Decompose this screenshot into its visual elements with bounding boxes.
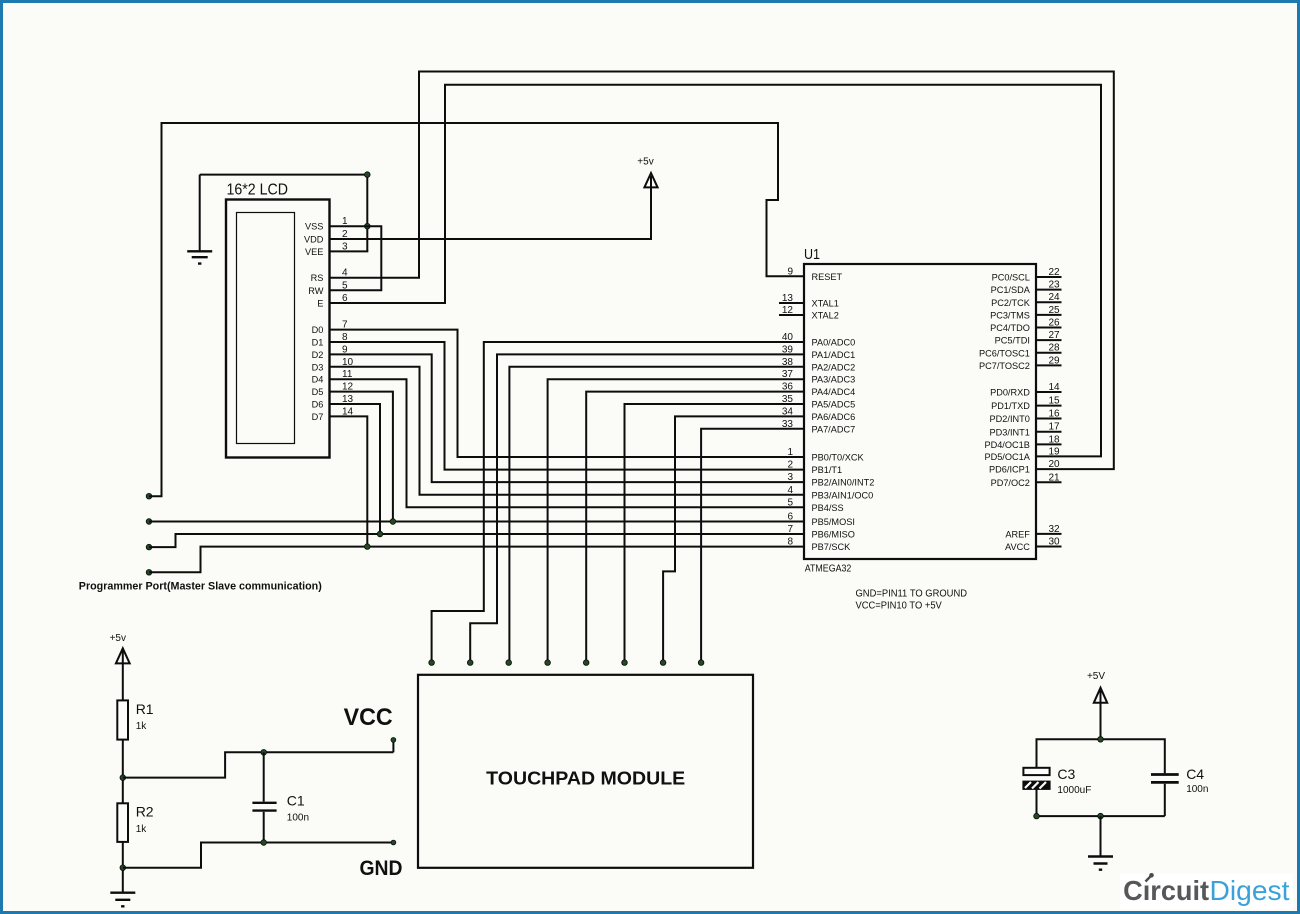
svg-text:4: 4: [787, 485, 793, 496]
node R2/ground junction: [120, 865, 126, 871]
svg-text:+5v: +5v: [110, 633, 126, 644]
U1 right pin stubs AREF AVCC: [1036, 534, 1062, 547]
svg-text:VSS: VSS: [305, 222, 323, 232]
svg-text:D1: D1: [312, 338, 324, 348]
svg-text:Cırcuit: Cırcuit: [1123, 875, 1209, 906]
U1 right pin stubs PC0-PC7: [1036, 277, 1062, 365]
svg-text:PA0/ADC0: PA0/ADC0: [812, 338, 856, 348]
wire R1 to R2: [122, 740, 124, 804]
IC U1 ATMEGA32 box: [804, 246, 1036, 575]
svg-text:GND=PIN11 TO GROUND: GND=PIN11 TO GROUND: [856, 589, 968, 600]
pin XTAL2 stub: [779, 314, 804, 316]
svg-text:VCC: VCC: [344, 704, 393, 731]
wire D5 to PB5 junction: [330, 392, 393, 522]
svg-text:PD2/INT0: PD2/INT0: [990, 414, 1030, 424]
wire ground to VSS/VEE junction: [200, 175, 368, 252]
svg-text:AVCC: AVCC: [1005, 542, 1030, 552]
svg-text:U1: U1: [804, 246, 820, 263]
svg-text:VDD: VDD: [304, 235, 324, 245]
svg-text:20: 20: [1048, 459, 1060, 470]
wire to PB5/MOSI: [149, 521, 805, 523]
wire PA6 to touchpad pin7: [663, 416, 805, 660]
wire E pin6 to PD5/OC1A pin19: [330, 85, 1102, 457]
wire PA5 to touchpad pin6: [625, 404, 806, 660]
svg-text:PC4/TDO: PC4/TDO: [990, 323, 1030, 333]
node PB7 junction: [365, 544, 371, 550]
wire divider junction to VCC rail: [123, 752, 394, 777]
svg-text:D4: D4: [312, 375, 324, 385]
svg-text:7: 7: [787, 524, 793, 535]
node R1/R2 junction: [120, 775, 126, 781]
svg-text:PD7/OC2: PD7/OC2: [991, 478, 1030, 488]
LCD pin labels: [304, 222, 324, 422]
svg-text:PB5/MOSI: PB5/MOSI: [812, 517, 855, 527]
svg-text:PC3/TMS: PC3/TMS: [990, 311, 1030, 321]
svg-text:1k: 1k: [136, 721, 148, 732]
programmer port pin 4 (SCK): [146, 570, 152, 576]
svg-text:C4: C4: [1186, 766, 1204, 782]
LCD module 16*2: [226, 182, 330, 458]
capacitor C1: [252, 752, 309, 842]
wire RS pin4 to PD6/ICP1 pin20: [330, 72, 1114, 470]
node +5V rail junction: [1098, 737, 1104, 743]
svg-text:C1: C1: [287, 793, 305, 809]
svg-text:PC0/SCL: PC0/SCL: [992, 273, 1030, 283]
wire D0 to PB0: [330, 330, 806, 457]
svg-text:PC2/TCK: PC2/TCK: [991, 298, 1031, 308]
wire D1 to PB1: [330, 342, 806, 470]
svg-text:PD4/OC1B: PD4/OC1B: [984, 440, 1029, 450]
programmer port pin 3 (MISO): [146, 544, 152, 550]
power +5v (bottom left): [110, 633, 130, 700]
svg-text:ATMEGA32: ATMEGA32: [805, 564, 852, 575]
svg-text:XTAL2: XTAL2: [812, 311, 839, 321]
resistor R1: [117, 700, 154, 739]
svg-text:6: 6: [787, 512, 793, 523]
svg-text:PD1/TXD: PD1/TXD: [991, 401, 1030, 411]
svg-text:100n: 100n: [287, 813, 309, 824]
U1 left pin numbers: [782, 266, 794, 547]
U1 right pin stubs PD0-PD4, PD7: [1036, 392, 1062, 482]
svg-text:R2: R2: [136, 804, 154, 820]
wire GND rail C3/C4: [1037, 815, 1165, 817]
capacitor C4: [1151, 766, 1208, 816]
wire VEE pin3: [330, 250, 369, 252]
node VCC terminal: [391, 738, 396, 743]
LCD pin numbers: [342, 216, 354, 417]
svg-text:1: 1: [787, 447, 793, 458]
svg-text:PB1/T1: PB1/T1: [812, 465, 843, 475]
ground (bottom left): [110, 893, 135, 907]
node center ground junction: [1098, 813, 1104, 819]
wire PA0 to touchpad pin1: [432, 342, 805, 660]
programmer port pin 2 (MOSI): [146, 519, 152, 525]
svg-text:VEE: VEE: [305, 247, 323, 257]
wire C3 bottom: [1036, 789, 1038, 816]
node junction VSS: [365, 223, 371, 229]
U1 right pin labels: [979, 273, 1031, 552]
svg-text:PC5/TDI: PC5/TDI: [995, 336, 1030, 346]
svg-text:R1: R1: [136, 701, 154, 717]
svg-text:19: 19: [1048, 446, 1060, 457]
svg-text:3: 3: [787, 472, 793, 483]
svg-text:Programmer Port(Master Slave c: Programmer Port(Master Slave communicati…: [79, 581, 322, 593]
svg-text:TOUCHPAD MODULE: TOUCHPAD MODULE: [486, 769, 685, 789]
wire to PB6/MISO: [149, 534, 805, 547]
wire D2 to PB2: [330, 354, 806, 482]
svg-text:PD3/INT1: PD3/INT1: [990, 427, 1030, 437]
svg-text:PA2/ADC2: PA2/ADC2: [812, 362, 856, 372]
U1 left pin labels: [812, 272, 875, 552]
node C3 bottom junction: [1034, 813, 1040, 819]
svg-text:PD5/OC1A: PD5/OC1A: [984, 452, 1030, 462]
svg-text:16*2 LCD: 16*2 LCD: [227, 182, 289, 199]
capacitor C3 (polarized): [1023, 766, 1091, 796]
wire VSS pin1 to RW pin5: [330, 226, 382, 290]
annotation GND/VCC pins: [856, 589, 968, 612]
svg-text:PA5/ADC5: PA5/ADC5: [812, 400, 856, 410]
svg-text:VCC=PIN10 TO +5V: VCC=PIN10 TO +5V: [856, 600, 943, 611]
svg-text:PA7/ADC7: PA7/ADC7: [812, 424, 856, 434]
touchpad module box: [418, 675, 753, 868]
wire PA2 to touchpad pin3: [509, 367, 805, 660]
node junction top: [365, 172, 371, 178]
svg-text:PA3/ADC3: PA3/ADC3: [812, 375, 856, 385]
wire reset to U1 RESET pin9: [149, 123, 805, 496]
wire D6 to PB6 junction: [330, 404, 381, 534]
svg-text:1k: 1k: [136, 824, 148, 835]
svg-text:D7: D7: [312, 412, 324, 422]
CircuitDigest logo: [1120, 873, 1293, 909]
svg-text:1000uF: 1000uF: [1057, 785, 1091, 796]
svg-text:Digest: Digest: [1210, 875, 1290, 906]
svg-text:AREF: AREF: [1005, 530, 1030, 540]
svg-text:D5: D5: [312, 387, 324, 397]
svg-text:PB4/SS: PB4/SS: [812, 503, 844, 513]
svg-text:D6: D6: [312, 400, 324, 410]
node GND terminal: [391, 840, 396, 845]
svg-text:GND: GND: [360, 857, 403, 880]
svg-text:+5V: +5V: [1087, 671, 1105, 682]
wire R2 to ground: [122, 842, 124, 892]
svg-text:PA1/ADC1: PA1/ADC1: [812, 350, 856, 360]
svg-text:C3: C3: [1057, 766, 1075, 782]
svg-text:PD0/RXD: PD0/RXD: [990, 388, 1030, 398]
svg-text:PB6/MISO: PB6/MISO: [812, 530, 855, 540]
pin XTAL1 stub: [779, 302, 804, 304]
ground (left of LCD): [187, 175, 212, 264]
svg-text:RW: RW: [308, 286, 323, 296]
svg-text:E: E: [317, 299, 323, 309]
wire D4 to PB4: [330, 379, 806, 507]
svg-text:RESET: RESET: [812, 272, 843, 282]
svg-text:XTAL1: XTAL1: [812, 299, 839, 309]
node PB6 junction: [377, 531, 383, 537]
svg-text:PB7/SCK: PB7/SCK: [812, 542, 852, 552]
svg-text:PA4/ADC4: PA4/ADC4: [812, 387, 856, 397]
node C1 top junction: [261, 750, 267, 756]
node C1 bottom junction: [261, 840, 267, 846]
power +5V (bottom right): [1087, 671, 1107, 739]
wire PA4 to touchpad pin5: [586, 392, 805, 660]
svg-text:PC7/TOSC2: PC7/TOSC2: [979, 361, 1030, 371]
power +5v (top): [637, 157, 657, 188]
wire PA7 to touchpad pin8: [701, 429, 805, 660]
node PB5 junction: [390, 519, 396, 525]
resistor R2: [117, 803, 154, 842]
svg-text:2: 2: [787, 460, 793, 471]
U1 right pin numbers: [1048, 267, 1060, 548]
svg-text:PD6/ICP1: PD6/ICP1: [989, 465, 1030, 475]
svg-text:8: 8: [787, 537, 793, 548]
svg-text:PB3/AIN1/OC0: PB3/AIN1/OC0: [812, 490, 874, 500]
wire D3 to PB3: [330, 367, 806, 495]
svg-text:+5v: +5v: [637, 157, 653, 168]
wire PA3 to touchpad pin4: [548, 379, 805, 660]
wire to PB7/SCK: [149, 547, 805, 573]
svg-text:PC6/TOSC1: PC6/TOSC1: [979, 348, 1030, 358]
svg-text:5: 5: [787, 497, 793, 508]
svg-text:9: 9: [787, 266, 793, 277]
wire PA1 to touchpad pin2: [470, 354, 805, 660]
svg-text:PB2/AIN0/INT2: PB2/AIN0/INT2: [812, 478, 875, 488]
wire GND rail: [123, 843, 393, 868]
svg-text:RS: RS: [311, 273, 324, 283]
svg-text:D2: D2: [312, 350, 324, 360]
svg-text:D0: D0: [312, 325, 324, 335]
wire +5V rail C3/C4: [1037, 739, 1165, 773]
touchpad terminal dots: [429, 660, 435, 666]
wire VDD pin2 to +5v: [330, 187, 652, 239]
wire D7 to PB7 junction: [330, 416, 368, 546]
svg-text:D3: D3: [312, 362, 324, 372]
wire to ground: [1100, 816, 1102, 855]
programmer port pin 1 (reset): [146, 493, 152, 499]
ground (bottom right): [1088, 857, 1113, 870]
wire VCC terminal stem: [392, 741, 394, 752]
svg-text:PC1/SDA: PC1/SDA: [991, 285, 1031, 295]
svg-text:PA6/ADC6: PA6/ADC6: [812, 412, 856, 422]
svg-text:100n: 100n: [1186, 784, 1208, 795]
svg-text:PB0/T0/XCK: PB0/T0/XCK: [812, 453, 865, 463]
